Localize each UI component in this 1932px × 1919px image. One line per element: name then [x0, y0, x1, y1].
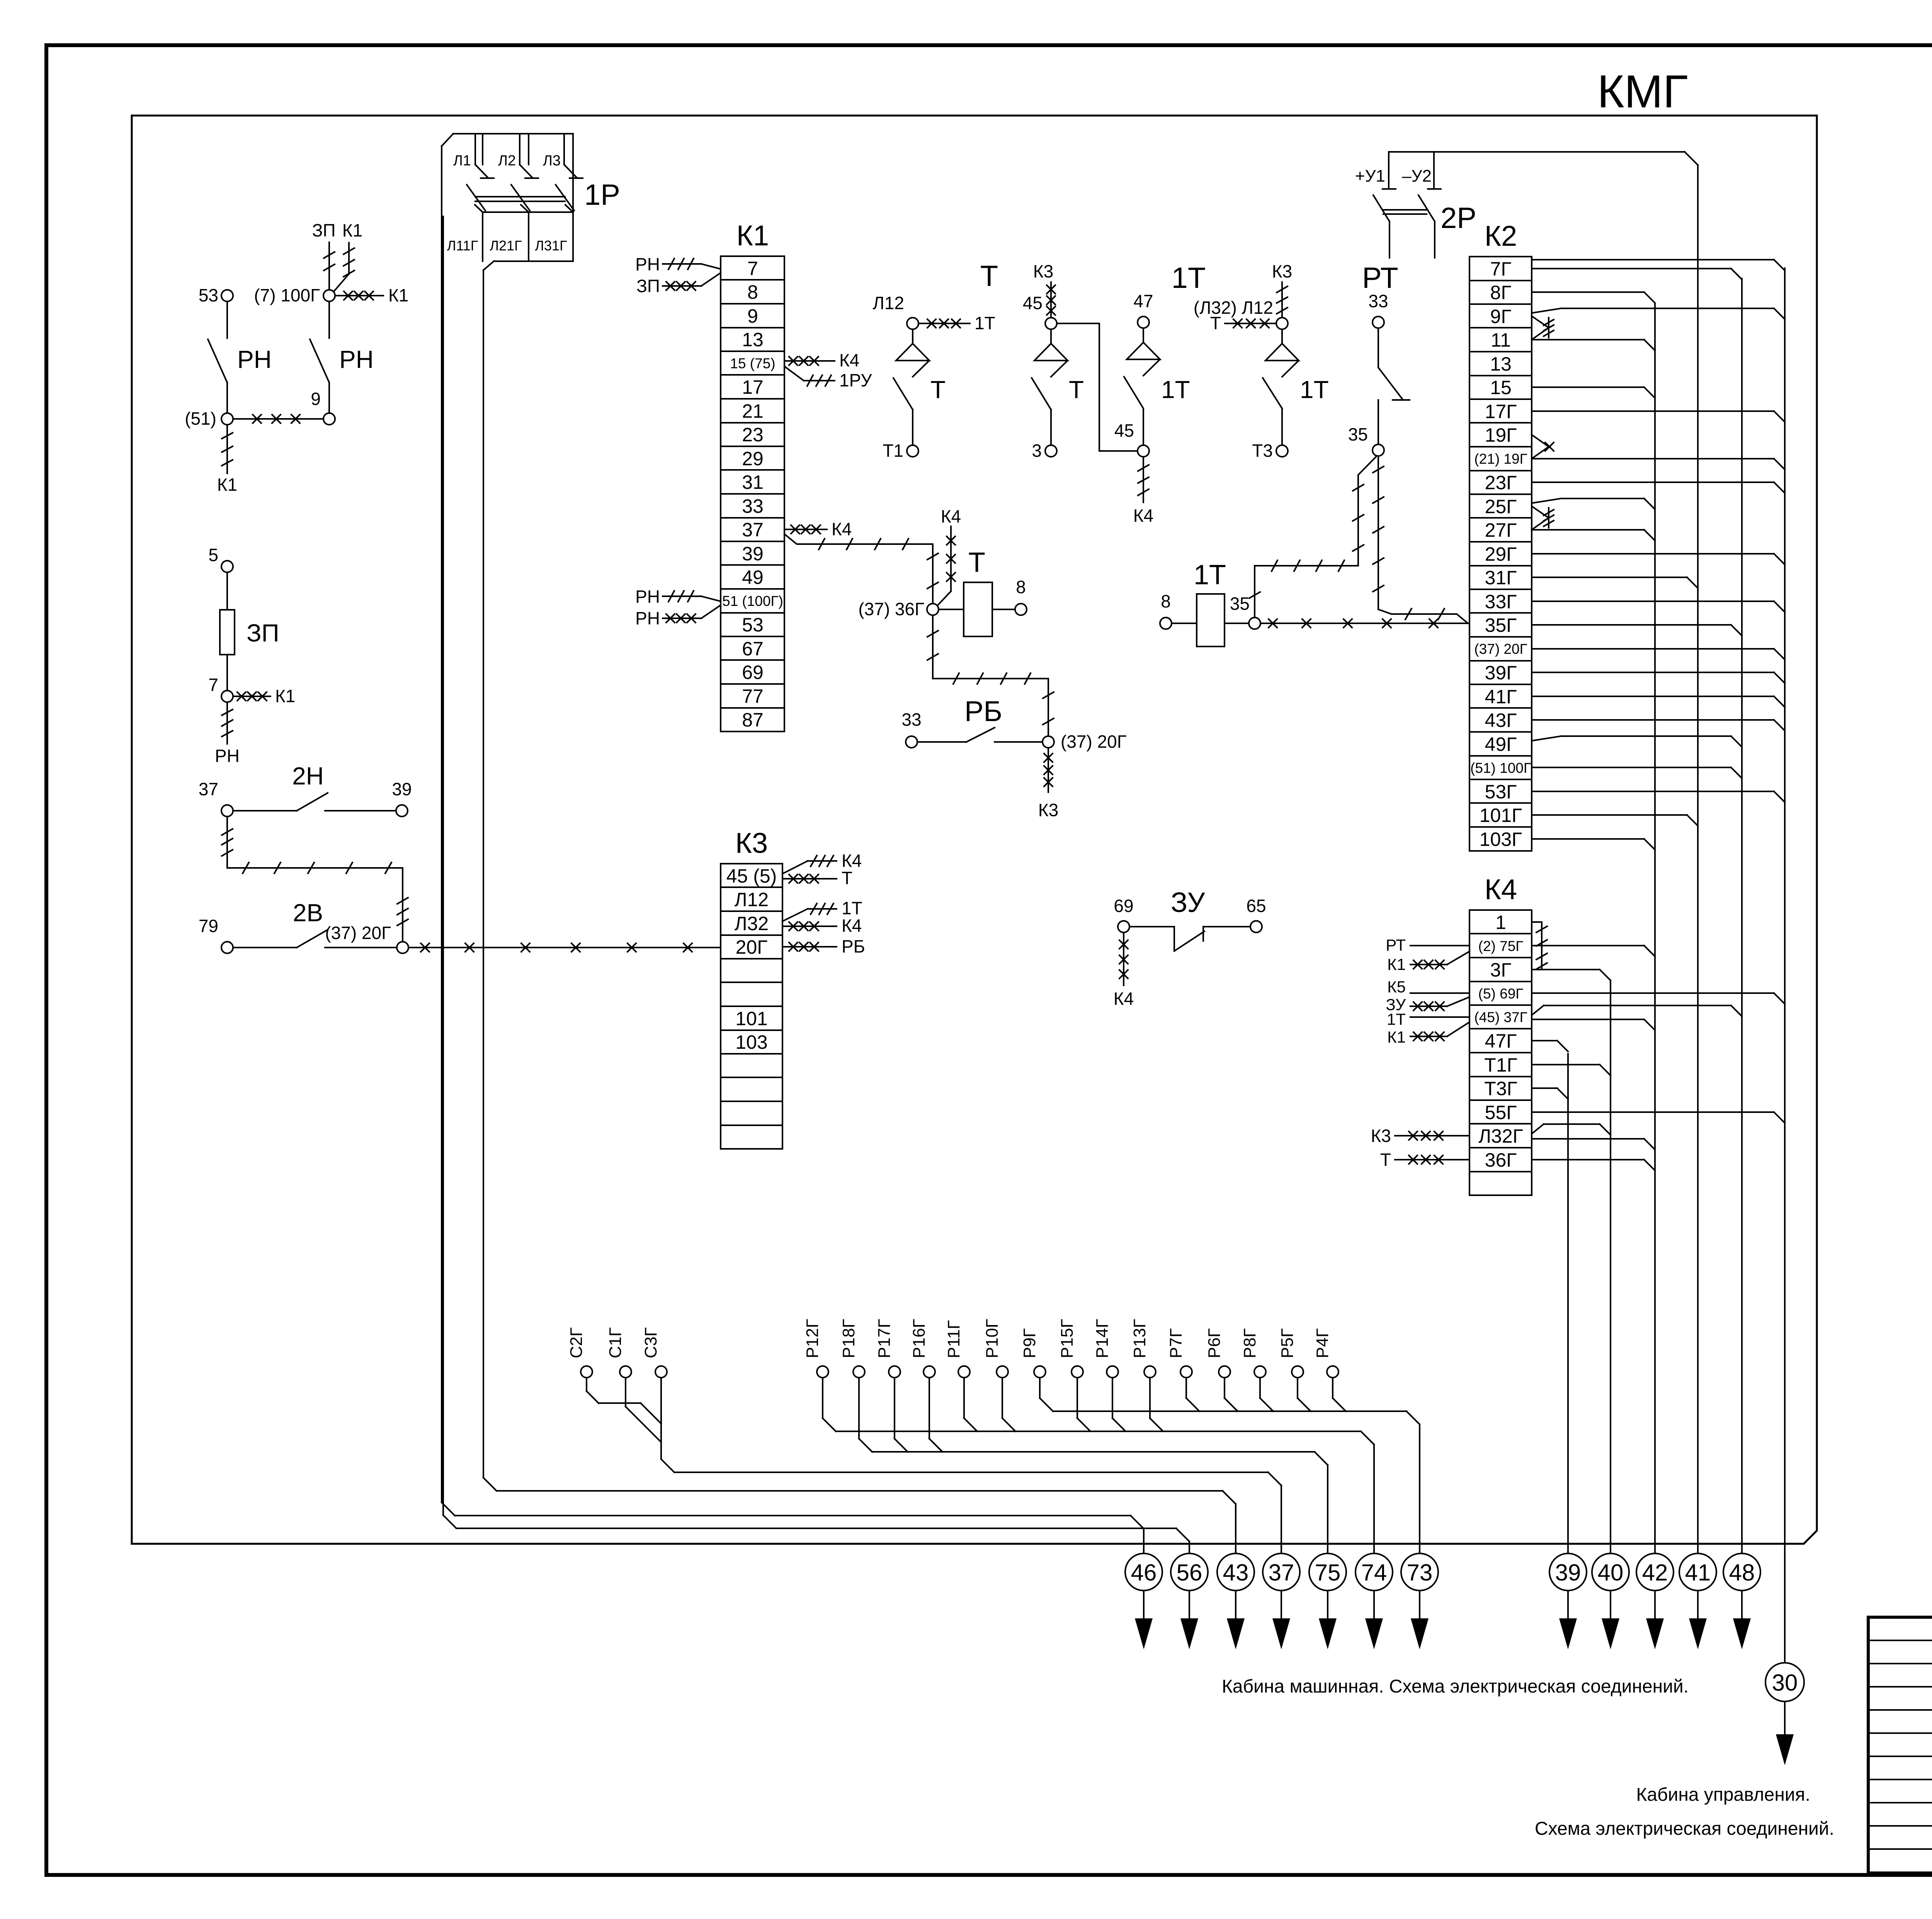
svg-text:К1: К1: [275, 686, 295, 706]
svg-text:33: 33: [742, 495, 764, 517]
svg-text:(37) 20Г: (37) 20Г: [325, 923, 391, 943]
svg-text:56: 56: [1177, 1560, 1202, 1586]
svg-text:К4: К4: [1133, 505, 1153, 526]
svg-text:53: 53: [199, 285, 218, 305]
svg-text:КМГ: КМГ: [1597, 66, 1688, 117]
svg-text:1Р: 1Р: [584, 179, 620, 211]
svg-text:Р4Г: Р4Г: [1313, 1328, 1332, 1358]
svg-text:7: 7: [208, 675, 218, 695]
svg-text:46: 46: [1131, 1560, 1157, 1586]
svg-text:(45) 37Г: (45) 37Г: [1474, 1009, 1527, 1025]
svg-text:Т: Т: [1380, 1150, 1391, 1170]
svg-text:39: 39: [742, 543, 764, 565]
svg-text:Схема электрическая соединений: Схема электрическая соединений.: [1535, 1819, 1834, 1839]
svg-text:74: 74: [1361, 1560, 1387, 1586]
svg-text:С1Г: С1Г: [606, 1327, 625, 1358]
svg-text:Р5Г: Р5Г: [1278, 1328, 1297, 1358]
svg-text:К4: К4: [1485, 873, 1517, 905]
svg-text:8Г: 8Г: [1490, 282, 1512, 303]
svg-text:15 (75): 15 (75): [730, 356, 775, 371]
svg-text:К2: К2: [1485, 220, 1517, 252]
svg-text:Р9Г: Р9Г: [1020, 1328, 1039, 1358]
svg-text:К4: К4: [839, 350, 859, 370]
svg-text:К4: К4: [842, 915, 862, 936]
svg-text:1: 1: [1495, 912, 1506, 933]
svg-text:(7) 100Г: (7) 100Г: [254, 285, 320, 305]
svg-text:К1: К1: [736, 219, 769, 252]
svg-text:Т: Т: [842, 868, 852, 888]
svg-text:Л2: Л2: [498, 153, 516, 169]
svg-text:40: 40: [1598, 1560, 1624, 1586]
svg-text:Р18Г: Р18Г: [839, 1319, 858, 1358]
svg-text:8: 8: [1161, 591, 1171, 611]
svg-text:9: 9: [747, 305, 758, 327]
svg-text:РТ: РТ: [1362, 262, 1398, 294]
svg-text:К4: К4: [1114, 988, 1134, 1009]
svg-text:К1: К1: [388, 285, 408, 305]
svg-text:(37) 36Г: (37) 36Г: [858, 599, 924, 619]
svg-text:С2Г: С2Г: [567, 1327, 586, 1358]
svg-text:42: 42: [1642, 1560, 1668, 1586]
svg-text:27Г: 27Г: [1485, 519, 1517, 541]
svg-text:35: 35: [1230, 594, 1250, 614]
svg-text:К3: К3: [1371, 1126, 1391, 1146]
svg-text:Т1: Т1: [883, 441, 903, 461]
svg-text:75: 75: [1315, 1560, 1341, 1586]
svg-text:19Г: 19Г: [1485, 424, 1517, 446]
svg-text:Р16Г: Р16Г: [910, 1319, 929, 1358]
svg-text:13: 13: [742, 329, 764, 350]
svg-text:48: 48: [1729, 1560, 1755, 1586]
svg-text:Р8Г: Р8Г: [1240, 1328, 1259, 1358]
svg-text:Кабина машинная. Схема электри: Кабина машинная. Схема электрическая сое…: [1222, 1676, 1689, 1697]
svg-text:Р10Г: Р10Г: [983, 1319, 1002, 1358]
svg-text:Р7Г: Р7Г: [1167, 1328, 1185, 1358]
svg-text:Т: Т: [968, 547, 985, 578]
svg-text:Р15Г: Р15Г: [1058, 1319, 1077, 1358]
svg-text:87: 87: [742, 709, 764, 731]
svg-text:–У2: –У2: [1402, 167, 1432, 185]
svg-text:К4: К4: [832, 519, 852, 539]
svg-text:ЗП: ЗП: [312, 220, 336, 240]
svg-text:55Г: 55Г: [1485, 1102, 1517, 1123]
svg-text:(37) 20Г: (37) 20Г: [1061, 732, 1127, 752]
svg-text:77: 77: [742, 686, 764, 707]
svg-text:(51): (51): [185, 408, 216, 429]
svg-text:29Г: 29Г: [1485, 543, 1517, 565]
svg-text:79: 79: [199, 916, 218, 936]
svg-text:73: 73: [1407, 1560, 1433, 1586]
svg-text:13: 13: [1490, 353, 1512, 375]
svg-text:41Г: 41Г: [1485, 686, 1517, 708]
svg-text:3: 3: [1032, 441, 1042, 461]
svg-text:39: 39: [392, 779, 412, 799]
svg-text:РТ: РТ: [1386, 936, 1406, 954]
svg-text:ЗП: ЗП: [247, 619, 279, 647]
svg-text:Т3: Т3: [1252, 441, 1273, 461]
svg-text:45: 45: [1023, 293, 1043, 313]
svg-text:45 (5): 45 (5): [726, 865, 777, 887]
svg-text:53Г: 53Г: [1485, 781, 1517, 803]
svg-text:31Г: 31Г: [1485, 567, 1517, 589]
svg-text:Л12: Л12: [735, 889, 769, 910]
svg-text:9Г: 9Г: [1490, 306, 1512, 327]
svg-text:51 (100Г): 51 (100Г): [722, 593, 783, 609]
svg-text:47Г: 47Г: [1485, 1030, 1517, 1052]
svg-text:67: 67: [742, 638, 764, 660]
svg-text:36Г: 36Г: [1485, 1149, 1517, 1171]
svg-text:101Г: 101Г: [1480, 805, 1522, 826]
svg-text:Т1Г: Т1Г: [1484, 1054, 1517, 1076]
svg-text:РБ: РБ: [842, 936, 865, 956]
svg-text:37: 37: [199, 779, 218, 799]
svg-text:Л31Г: Л31Г: [535, 238, 567, 253]
svg-text:Р12Г: Р12Г: [803, 1319, 822, 1358]
svg-text:47: 47: [1133, 291, 1153, 311]
svg-text:(5) 69Г: (5) 69Г: [1478, 986, 1524, 1002]
svg-text:К1: К1: [1387, 955, 1406, 973]
svg-text:25Г: 25Г: [1485, 496, 1517, 517]
svg-text:(51) 100Г: (51) 100Г: [1470, 760, 1531, 776]
svg-text:1Т: 1Т: [1194, 560, 1226, 590]
svg-text:17Г: 17Г: [1485, 401, 1517, 422]
svg-text:1Т: 1Т: [975, 313, 995, 333]
svg-text:69: 69: [1114, 896, 1133, 916]
svg-text:К3: К3: [1033, 261, 1053, 281]
svg-text:8: 8: [1016, 577, 1026, 597]
svg-text:К3: К3: [735, 827, 768, 859]
svg-text:7: 7: [747, 258, 758, 279]
svg-text:1Т: 1Т: [1172, 262, 1206, 294]
svg-text:53: 53: [742, 614, 764, 636]
svg-text:2Р: 2Р: [1440, 202, 1476, 235]
svg-text:11: 11: [1491, 329, 1511, 351]
svg-text:Р14Г: Р14Г: [1093, 1319, 1112, 1358]
svg-text:43Г: 43Г: [1485, 709, 1517, 731]
svg-text:103: 103: [735, 1031, 767, 1053]
svg-text:К3: К3: [1038, 800, 1058, 820]
svg-text:65: 65: [1246, 896, 1266, 916]
svg-text:49: 49: [742, 567, 764, 588]
svg-text:Л1: Л1: [453, 153, 471, 169]
svg-text:37: 37: [1269, 1560, 1294, 1586]
svg-text:2Н: 2Н: [292, 762, 324, 790]
svg-text:ЗП: ЗП: [636, 276, 660, 296]
svg-text:31: 31: [742, 471, 764, 493]
svg-text:Л12: Л12: [873, 293, 904, 313]
svg-text:РН: РН: [635, 254, 660, 274]
svg-text:20Г: 20Г: [736, 936, 768, 958]
svg-text:17: 17: [742, 376, 764, 398]
svg-text:Т: Т: [1069, 376, 1084, 403]
svg-text:Р6Г: Р6Г: [1205, 1328, 1224, 1358]
svg-text:8: 8: [747, 281, 758, 303]
svg-text:101: 101: [735, 1008, 767, 1029]
svg-text:Л32: Л32: [735, 913, 769, 934]
svg-text:РН: РН: [635, 608, 660, 628]
svg-text:РН: РН: [635, 587, 660, 607]
svg-text:ЗУ: ЗУ: [1171, 887, 1206, 918]
svg-text:2В: 2В: [293, 899, 323, 927]
svg-text:К1: К1: [342, 220, 362, 240]
svg-text:(37) 20Г: (37) 20Г: [1474, 641, 1527, 657]
svg-text:7Г: 7Г: [1490, 258, 1512, 280]
svg-text:Т3Г: Т3Г: [1484, 1078, 1517, 1099]
svg-text:+У1: +У1: [1355, 167, 1385, 185]
svg-text:С3Г: С3Г: [641, 1327, 660, 1358]
svg-text:Л21Г: Л21Г: [490, 238, 522, 253]
svg-text:23: 23: [742, 424, 764, 446]
svg-text:К5: К5: [1387, 978, 1406, 996]
svg-text:49Г: 49Г: [1485, 733, 1517, 755]
svg-text:69: 69: [742, 662, 764, 683]
svg-text:РБ: РБ: [964, 695, 1002, 727]
svg-text:5: 5: [208, 545, 218, 565]
svg-text:К1: К1: [217, 475, 237, 495]
svg-text:Т: Т: [930, 376, 946, 403]
svg-text:1Т: 1Т: [1387, 1010, 1406, 1028]
svg-text:Р17Г: Р17Г: [875, 1319, 894, 1358]
svg-text:41: 41: [1685, 1560, 1711, 1586]
svg-text:(2) 75Г: (2) 75Г: [1478, 938, 1524, 954]
svg-text:15: 15: [1490, 377, 1512, 398]
svg-text:Т: Т: [980, 260, 998, 293]
svg-text:29: 29: [742, 448, 764, 470]
svg-text:30: 30: [1772, 1670, 1798, 1696]
svg-text:37: 37: [742, 519, 764, 541]
svg-text:9: 9: [311, 389, 321, 409]
svg-text:К4: К4: [941, 506, 961, 526]
svg-text:35Г: 35Г: [1485, 614, 1517, 636]
svg-text:35: 35: [1348, 424, 1368, 444]
svg-text:1Т: 1Т: [1161, 376, 1190, 403]
svg-text:Т: Т: [1210, 313, 1221, 333]
svg-text:РН: РН: [339, 345, 374, 373]
svg-text:РН: РН: [237, 345, 272, 373]
svg-text:Р11Г: Р11Г: [944, 1320, 963, 1358]
svg-text:Кабина управления.: Кабина управления.: [1636, 1785, 1810, 1805]
svg-text:45: 45: [1114, 420, 1134, 441]
svg-text:Л11Г: Л11Г: [447, 238, 478, 253]
svg-text:33: 33: [1368, 291, 1388, 311]
svg-text:Р13Г: Р13Г: [1130, 1319, 1149, 1358]
svg-text:1РУ: 1РУ: [839, 370, 872, 390]
svg-text:39Г: 39Г: [1485, 662, 1517, 684]
svg-text:103Г: 103Г: [1480, 829, 1522, 850]
svg-text:К3: К3: [1272, 261, 1292, 281]
svg-text:(21) 19Г: (21) 19Г: [1474, 451, 1527, 467]
svg-text:Л32Г: Л32Г: [1478, 1125, 1523, 1147]
svg-text:К1: К1: [1387, 1028, 1406, 1046]
svg-text:Л3: Л3: [543, 153, 561, 169]
svg-text:33Г: 33Г: [1485, 591, 1517, 612]
svg-text:43: 43: [1223, 1560, 1249, 1586]
svg-text:1Т: 1Т: [1300, 376, 1329, 403]
svg-text:23Г: 23Г: [1485, 472, 1517, 493]
svg-text:39: 39: [1555, 1560, 1581, 1586]
svg-text:33: 33: [901, 709, 921, 730]
svg-text:(Л32) Л12: (Л32) Л12: [1194, 298, 1273, 318]
svg-text:3Г: 3Г: [1490, 959, 1512, 981]
svg-text:РН: РН: [215, 746, 240, 766]
svg-text:21: 21: [742, 400, 764, 422]
